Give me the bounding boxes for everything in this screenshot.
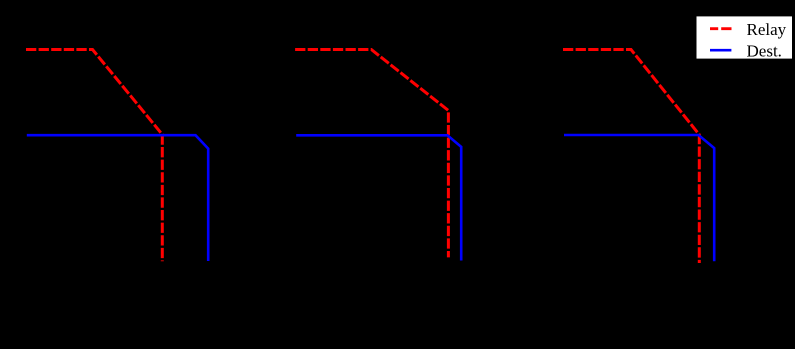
relay curve (red dashed), subplot 2 <box>295 50 448 258</box>
dest curve (blue solid), subplot 1 <box>27 135 208 261</box>
legend relay dash sample <box>710 27 732 30</box>
relay curve (red dashed), subplot 1 <box>26 50 162 262</box>
dest curve (blue solid), subplot 2 <box>296 135 461 260</box>
relay curve (red dashed), subplot 3 <box>563 50 699 264</box>
svg-text:Dest.: Dest. <box>747 41 782 60</box>
svg-text:Relay: Relay <box>747 20 787 39</box>
dest curve (blue solid), subplot 3 <box>564 135 714 261</box>
legend dest line sample <box>710 49 731 52</box>
legend box <box>697 16 793 58</box>
